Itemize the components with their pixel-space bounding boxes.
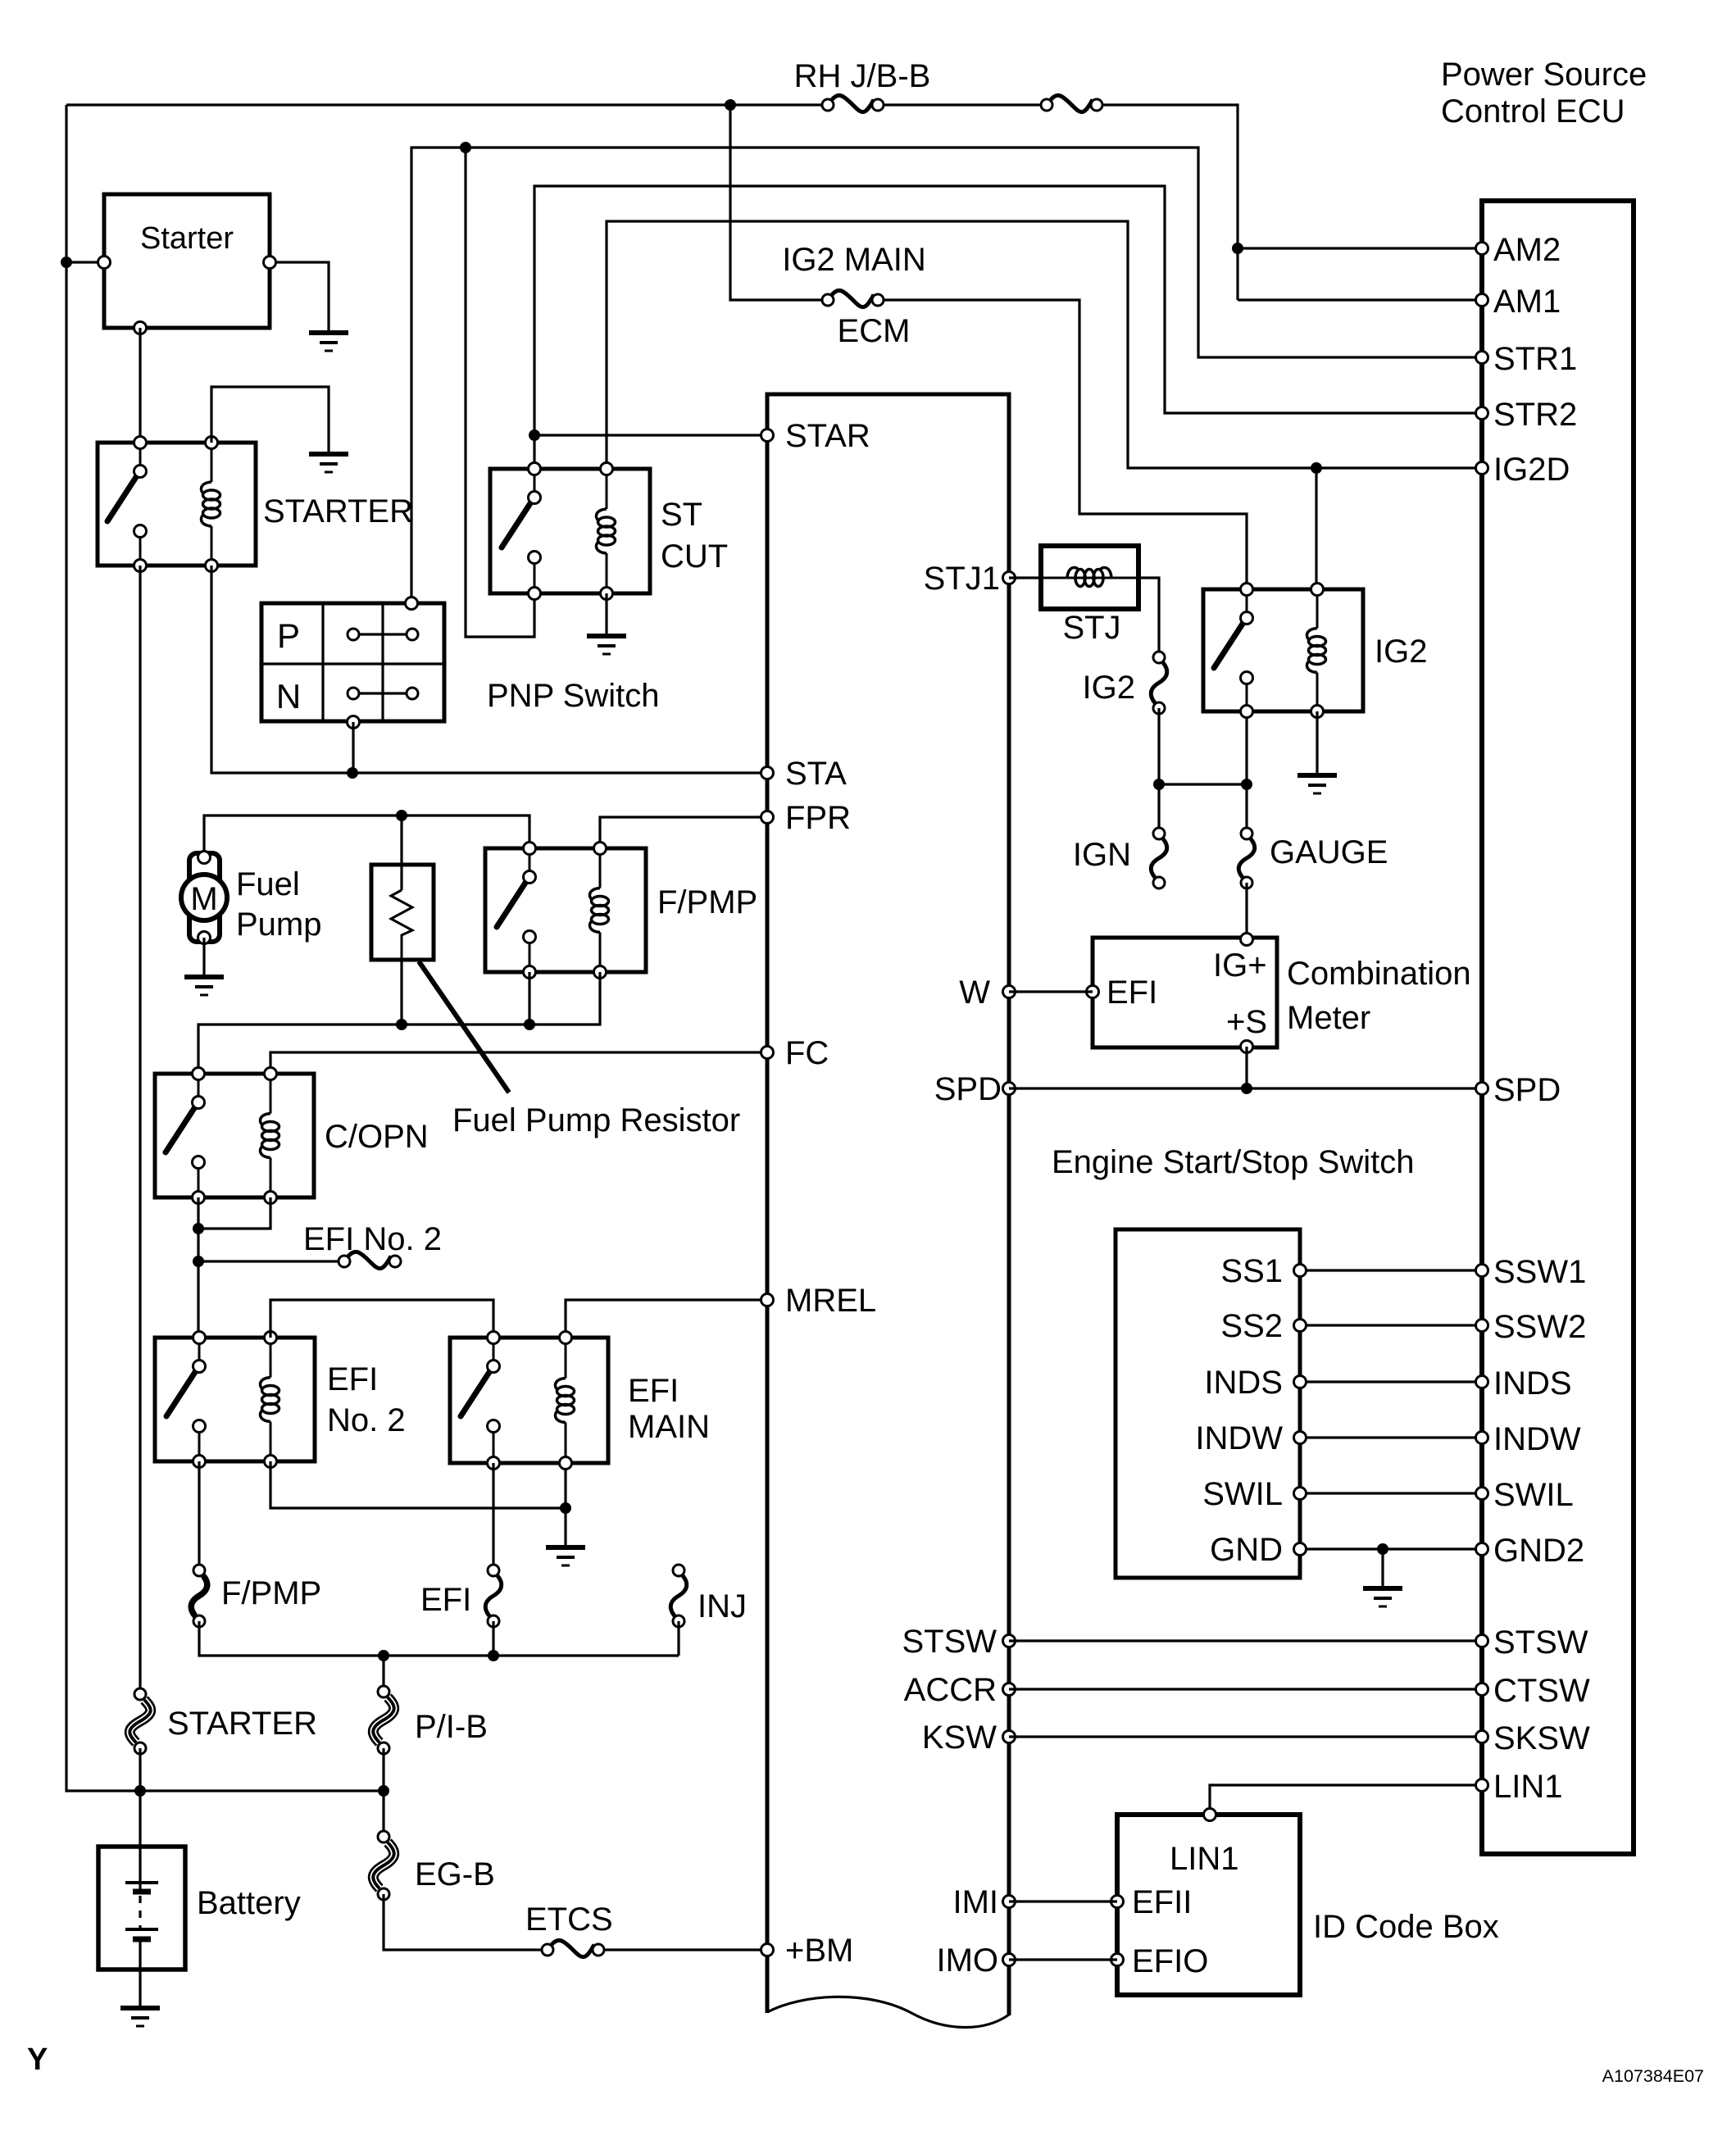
svg-text:IGN: IGN	[1073, 837, 1131, 873]
svg-text:A107384E07: A107384E07	[1602, 2066, 1704, 2086]
terminal ECU STSW	[1476, 1635, 1488, 1647]
svg-text:GND: GND	[1210, 1532, 1283, 1568]
wire battery + feed top rail	[66, 103, 821, 106]
svg-text:MAIN: MAIN	[628, 1409, 710, 1445]
terminal PNP top	[406, 597, 418, 610]
svg-text:INDS: INDS	[1204, 1365, 1283, 1401]
svg-text:IG2D: IG2D	[1493, 452, 1570, 488]
svg-text:+BM: +BM	[785, 1933, 853, 1969]
svg-text:STA: STA	[785, 756, 847, 792]
wire to Starter B terminal	[66, 261, 104, 263]
pointer line Fuel Pump Resistor	[419, 961, 509, 1093]
svg-text:Battery: Battery	[197, 1885, 301, 1921]
svg-text:SPD: SPD	[934, 1071, 1002, 1107]
ECM main box	[767, 394, 1009, 2015]
terminal STA	[761, 767, 774, 779]
terminal IG+	[1241, 934, 1253, 946]
ground engine switch GND	[1363, 1586, 1402, 1591]
svg-text:MREL: MREL	[785, 1283, 876, 1319]
svg-text:EFI: EFI	[1107, 975, 1157, 1011]
node junction battery rail left	[134, 1785, 146, 1797]
svg-text:ECM: ECM	[838, 313, 911, 349]
wire STARTER relay sw to fuse	[139, 566, 141, 1694]
wire resistor bottom	[400, 960, 402, 1025]
battery plate long 2	[125, 1928, 158, 1931]
combination meter box	[1093, 938, 1277, 1047]
wire EFI MAIN coil bottom	[564, 1463, 566, 1546]
wire STJ to IG2 fuse	[1138, 578, 1159, 657]
svg-text:SPD: SPD	[1493, 1072, 1561, 1108]
svg-text:IG+: IG+	[1213, 947, 1267, 984]
svg-text:Starter: Starter	[140, 221, 234, 256]
svg-text:FPR: FPR	[785, 800, 851, 836]
terminal SS1	[1294, 1265, 1307, 1277]
terminal ECU INDW	[1476, 1432, 1488, 1444]
svg-text:EFI: EFI	[420, 1582, 471, 1618]
svg-text:STARTER: STARTER	[167, 1706, 317, 1742]
node junction STAR	[529, 429, 540, 441]
fuse EG-B	[373, 1842, 393, 1888]
svg-text:AM1: AM1	[1493, 284, 1561, 320]
fuse GAUGE	[1238, 839, 1254, 878]
relay C/OPN	[155, 1074, 314, 1197]
coil STJ	[1041, 577, 1138, 579]
wire EFI No.2 coil bottom	[270, 1461, 566, 1508]
wire F/PMP coil bottom	[198, 972, 600, 1074]
wire FPR to F/PMP coil	[600, 817, 767, 848]
fuel pump resistor box	[371, 865, 434, 960]
battery plate long 1	[125, 1881, 158, 1884]
svg-text:SWIL: SWIL	[1493, 1477, 1574, 1513]
wire IG2 fuse to junction	[1157, 708, 1160, 784]
svg-text:AM2: AM2	[1493, 232, 1561, 268]
wire STAR	[534, 434, 767, 436]
svg-text:IG2: IG2	[1083, 670, 1135, 706]
terminal MREL	[761, 1294, 774, 1306]
wire PNP bottom to STA net	[352, 722, 354, 773]
node junction GAUGE tap	[1241, 779, 1252, 790]
terminal PNP bottom	[348, 716, 360, 729]
node junction resistor / rail	[396, 1019, 407, 1030]
relay STARTER	[98, 443, 256, 566]
svg-text:M: M	[190, 881, 217, 917]
wire STARTER relay coil to STA	[211, 566, 767, 773]
svg-text:PNP Switch: PNP Switch	[487, 678, 659, 714]
svg-text:GND2: GND2	[1493, 1533, 1584, 1569]
wire W to EFI	[1009, 990, 1093, 993]
terminal GND	[1294, 1543, 1307, 1556]
battery cell stub	[139, 1883, 141, 1889]
terminal EFI meter	[1087, 986, 1099, 998]
terminal +BM	[761, 1944, 774, 1956]
wire AM1	[1238, 298, 1482, 301]
terminal fuel pump top	[198, 852, 211, 864]
terminal IMI	[1003, 1896, 1016, 1908]
terminal ECU GND2	[1476, 1543, 1488, 1556]
svg-text:INJ: INJ	[698, 1588, 747, 1624]
terminal SS2	[1294, 1320, 1307, 1332]
svg-text:ACCR: ACCR	[904, 1672, 997, 1708]
fuse F/PMP	[191, 1576, 207, 1616]
wire to IGN fuse	[1157, 784, 1160, 834]
svg-text:Y: Y	[27, 2042, 48, 2077]
wire IG2 MAIN to IG2 relay switch	[884, 300, 1247, 589]
battery plate short 1	[133, 1889, 151, 1895]
node junction GND / ground	[1377, 1543, 1388, 1555]
terminal KSW	[1003, 1731, 1016, 1743]
battery center conductor	[139, 1939, 141, 2006]
ID code box	[1117, 1815, 1300, 1995]
fuse IG2 MAIN	[832, 290, 874, 307]
node junction IGN tap	[1153, 779, 1165, 790]
terminal ECU INDS	[1476, 1376, 1488, 1388]
svg-text:STR2: STR2	[1493, 397, 1577, 433]
svg-text:Meter: Meter	[1287, 1000, 1370, 1036]
wire MREL to EFI MAIN coil	[566, 1300, 767, 1338]
ground STARTER relay coil	[309, 452, 348, 457]
engine start/stop switch box	[1116, 1229, 1300, 1578]
svg-text:STR1: STR1	[1493, 341, 1577, 377]
wire INDS	[1300, 1380, 1482, 1383]
fuse INJ	[670, 1576, 686, 1616]
wire F/PMP fuse to +B rail	[199, 1621, 679, 1656]
ECM box torn bottom	[767, 1997, 1009, 2027]
wire	[884, 103, 1040, 106]
svg-text:STSW: STSW	[1493, 1624, 1588, 1661]
wire to AM2/AM1 corner	[1103, 105, 1238, 300]
terminal ECU CTSW	[1476, 1683, 1488, 1696]
node junction STR1 net / ST CUT return	[460, 142, 471, 153]
wire IMO-EFIO	[1009, 1958, 1117, 1961]
svg-text:LIN1: LIN1	[1170, 1841, 1239, 1877]
battery plate short 2	[133, 1937, 151, 1942]
svg-text:Pump: Pump	[236, 906, 322, 943]
svg-text:EFIO: EFIO	[1132, 1943, 1208, 1979]
PNP N row contact bar	[353, 692, 412, 694]
svg-text:SS2: SS2	[1220, 1308, 1283, 1344]
PNP switch box	[261, 603, 444, 721]
fuse STARTER	[130, 1700, 150, 1742]
svg-text:IG2 MAIN: IG2 MAIN	[782, 242, 926, 278]
svg-text:No. 2: No. 2	[327, 1402, 406, 1438]
ground fuel pump	[184, 975, 224, 979]
terminal EFIO	[1111, 1954, 1124, 1966]
wire GND to ground	[1381, 1549, 1384, 1587]
terminal W	[1003, 986, 1016, 998]
node junction PNP / STA net	[347, 767, 358, 779]
terminal ECU STR2	[1476, 407, 1488, 420]
svg-text:FC: FC	[785, 1035, 829, 1071]
relay F/PMP	[485, 848, 646, 972]
terminal ECU LIN1	[1476, 1779, 1488, 1792]
wire INDW	[1300, 1436, 1482, 1438]
node junction IG2D / IG2 relay coil	[1311, 462, 1322, 474]
wire FC to C/OPN coil	[270, 1052, 767, 1074]
fuse ETCS	[552, 1940, 594, 1956]
fuel pump motor body	[189, 853, 220, 942]
wire EFI No.2 coil feed / MREL left	[270, 1300, 493, 1338]
wire C/OPN coil return	[198, 1197, 270, 1229]
relay EFI MAIN	[450, 1338, 608, 1463]
svg-text:P/I-B: P/I-B	[415, 1709, 488, 1745]
terminal starter right	[264, 257, 276, 269]
terminal STAR	[761, 429, 774, 442]
svg-text:+S: +S	[1226, 1004, 1267, 1040]
wire ST CUT coil to ground	[605, 593, 607, 634]
relay IG2	[1203, 589, 1363, 711]
svg-text:ID Code Box: ID Code Box	[1313, 1909, 1499, 1945]
svg-text:CTSW: CTSW	[1493, 1673, 1590, 1709]
node junction left bus / starter	[61, 257, 72, 268]
terminal ECU SPD	[1476, 1083, 1488, 1095]
svg-text:IMO: IMO	[936, 1942, 998, 1979]
STJ box	[1041, 546, 1138, 609]
terminal ECU AM2	[1476, 243, 1488, 255]
terminal ECU STR1	[1476, 352, 1488, 364]
svg-text:INDW: INDW	[1195, 1420, 1283, 1456]
wire IG2D net	[607, 221, 1482, 469]
terminal ECU AM1	[1476, 294, 1488, 307]
terminal +S	[1241, 1041, 1253, 1053]
terminal INDS	[1294, 1376, 1307, 1388]
node junction EFI fuse / +B rail	[488, 1650, 499, 1661]
svg-text:LIN1: LIN1	[1493, 1769, 1563, 1805]
svg-text:GAUGE: GAUGE	[1270, 834, 1388, 870]
wire EFI No.2 fuse feed	[198, 1260, 338, 1262]
relay ST CUT	[490, 469, 650, 593]
node junction SPD / +S	[1241, 1083, 1252, 1094]
svg-text:EFI: EFI	[327, 1361, 378, 1397]
wire ST CUT switch return	[466, 148, 534, 637]
terminal SPD	[1003, 1083, 1016, 1095]
svg-text:STARTER: STARTER	[263, 493, 413, 529]
terminal STSW	[1003, 1635, 1016, 1647]
fuse EFI	[485, 1576, 501, 1616]
wire IG2 relay coil feed	[1315, 468, 1317, 589]
svg-text:W: W	[959, 975, 990, 1011]
wire IG2 coil to ground	[1316, 711, 1318, 774]
terminal ECU SSW1	[1476, 1265, 1488, 1277]
wire SS1	[1300, 1269, 1482, 1271]
terminal SWIL	[1294, 1488, 1307, 1500]
svg-text:ST: ST	[661, 497, 702, 533]
svg-text:C/OPN: C/OPN	[325, 1119, 429, 1155]
wire STJ1 to STJ	[1009, 576, 1041, 579]
svg-text:Fuel: Fuel	[236, 866, 300, 902]
svg-text:SSW2: SSW2	[1493, 1309, 1586, 1345]
fuse IGN	[1151, 839, 1166, 878]
PNP inner dividers	[321, 603, 324, 721]
svg-text:N: N	[276, 677, 301, 716]
wire LIN1	[1210, 1785, 1482, 1815]
terminal FPR	[761, 811, 774, 824]
power source control ECU box	[1482, 201, 1634, 1854]
terminal ECU SWIL	[1476, 1488, 1488, 1500]
wire STSW	[1009, 1639, 1482, 1642]
wire EG-B to ETCS	[384, 1894, 541, 1950]
wire P/I-B feed	[382, 1656, 384, 1692]
wire STR2 net	[534, 186, 1482, 469]
wire KSW-SKSW	[1009, 1735, 1482, 1738]
wire AM2	[1238, 247, 1482, 249]
wire EFI fuse bottom	[492, 1621, 494, 1656]
wire F/PMP bottoms to C/OPN rail	[528, 972, 530, 1025]
svg-text:SSW1: SSW1	[1493, 1254, 1586, 1290]
terminal ECU SKSW	[1476, 1731, 1488, 1743]
wire SS2	[1300, 1324, 1482, 1326]
fuel pump motor circle	[181, 875, 227, 920]
wire STR1 net	[411, 148, 1482, 603]
terminal ECU IG2D	[1476, 462, 1488, 475]
ground ST CUT coil	[587, 634, 626, 638]
ground IG2 relay coil	[1297, 773, 1337, 778]
wire fuel pump to ground	[202, 938, 205, 975]
relay EFI No.2	[155, 1338, 315, 1461]
terminal IMO	[1003, 1954, 1016, 1966]
svg-text:INDS: INDS	[1493, 1365, 1572, 1402]
wire C/OPN switch bottom bus	[197, 1197, 199, 1338]
battery box	[98, 1847, 185, 1970]
wire EFI No.2 switch to F/PMP fuse	[198, 1461, 200, 1570]
fuse EFI No. 2	[348, 1252, 391, 1268]
ground starter motor	[309, 330, 348, 335]
node junction P/I-B tap	[378, 1650, 389, 1661]
wire to GAUGE fuse	[1245, 784, 1247, 834]
wire GAUGE to IG+	[1245, 883, 1247, 939]
fuse P/I-B	[373, 1697, 393, 1742]
svg-text:KSW: KSW	[922, 1720, 997, 1756]
svg-text:INDW: INDW	[1493, 1421, 1581, 1457]
svg-text:Combination: Combination	[1287, 956, 1471, 992]
wire starter ground	[270, 262, 329, 331]
wire ETCS to +BM	[605, 1948, 767, 1951]
wire EFI MAIN switch to EFI fuse	[492, 1463, 494, 1570]
svg-text:STJ: STJ	[1062, 610, 1120, 646]
wire ACCR-CTSW	[1009, 1688, 1482, 1690]
ground EFI relays coil	[546, 1545, 585, 1550]
node junction top rail / IG2 MAIN branch	[725, 99, 736, 111]
svg-text:STJ1: STJ1	[924, 561, 1000, 597]
svg-text:ETCS: ETCS	[525, 1901, 613, 1938]
svg-text:IG2: IG2	[1375, 634, 1427, 670]
svg-text:STAR: STAR	[785, 418, 870, 454]
svg-text:RH J/B-B: RH J/B-B	[794, 58, 931, 94]
PNP N contacts	[348, 688, 359, 699]
terminal STJ1	[1003, 572, 1016, 584]
svg-text:Engine Start/Stop Switch: Engine Start/Stop Switch	[1052, 1144, 1414, 1180]
wire IMI-EFII	[1009, 1900, 1117, 1902]
svg-text:F/PMP: F/PMP	[221, 1575, 321, 1611]
svg-text:SWIL: SWIL	[1202, 1476, 1283, 1512]
terminal ECU SSW2	[1476, 1320, 1488, 1332]
node junction coil grounds	[560, 1502, 571, 1514]
wire +S to SPD	[1245, 1047, 1247, 1088]
svg-text:IMI: IMI	[952, 1884, 998, 1920]
PNP P row contact bar	[353, 633, 412, 635]
terminal starter bottom	[134, 322, 147, 334]
fuse IG2	[1151, 663, 1166, 703]
svg-text:Control ECU: Control ECU	[1441, 93, 1625, 129]
svg-text:Fuel Pump Resistor: Fuel Pump Resistor	[452, 1102, 740, 1138]
terminal LIN1 id box	[1204, 1809, 1216, 1821]
wire P/I-B bottom	[382, 1748, 384, 1837]
terminal EFII	[1111, 1896, 1124, 1908]
svg-text:EFI No. 2: EFI No. 2	[303, 1221, 442, 1257]
svg-text:EG-B: EG-B	[415, 1856, 495, 1892]
svg-text:P: P	[277, 616, 300, 655]
svg-text:EFI: EFI	[628, 1373, 679, 1409]
starter motor box	[104, 194, 270, 328]
wire STARTER relay coil to ground	[211, 387, 329, 452]
wire GND	[1300, 1547, 1482, 1550]
svg-text:STSW: STSW	[902, 1624, 997, 1660]
wire battery column	[139, 1748, 141, 1882]
terminal fuel pump bottom	[198, 932, 211, 944]
wire fuel pump rail	[204, 816, 529, 857]
wire INJ fuse bottom	[677, 1621, 679, 1656]
wire starter to STARTER relay	[139, 328, 141, 443]
node junction F/PMP switch / rail	[524, 1019, 535, 1030]
node junction fuel pump resistor	[396, 810, 407, 821]
PNP P contacts	[348, 629, 359, 640]
svg-text:SKSW: SKSW	[1493, 1720, 1590, 1756]
svg-text:CUT: CUT	[661, 538, 728, 575]
battery inter-cell conductor	[139, 1896, 141, 1928]
wire IG2 MAIN feed	[730, 105, 821, 300]
node junction C/OPN coil return	[193, 1223, 204, 1234]
resistor R fuel pump	[400, 816, 402, 890]
fuse RH J/B-B (left)	[832, 95, 874, 111]
terminal starter left	[98, 257, 111, 269]
terminal ACCR	[1003, 1683, 1016, 1696]
svg-text:F/PMP: F/PMP	[657, 884, 757, 920]
terminal FC	[761, 1047, 774, 1059]
node junction battery rail right	[378, 1785, 389, 1797]
fuse RH J/B-B (right)	[1051, 95, 1093, 111]
wire junction rail	[1159, 783, 1247, 785]
wire SPD	[1009, 1087, 1482, 1089]
svg-text:Power Source: Power Source	[1441, 57, 1647, 93]
node junction EFI No.2 fuse tap	[193, 1256, 204, 1267]
wire left bus vertical	[66, 105, 384, 1791]
node junction AM2/AM1	[1232, 243, 1243, 254]
ground battery	[120, 2006, 160, 2011]
svg-text:EFII: EFII	[1132, 1884, 1192, 1920]
wire IG2 relay switch return	[1245, 711, 1247, 784]
svg-text:SS1: SS1	[1220, 1253, 1283, 1289]
terminal INDW	[1294, 1432, 1307, 1444]
wire SWIL	[1300, 1492, 1482, 1494]
